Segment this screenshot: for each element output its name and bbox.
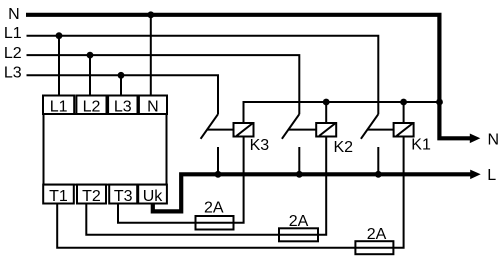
terminal L2 box [76, 96, 106, 115]
svg-text:K2: K2 [334, 139, 354, 156]
fuse 2A for K3 circuit [196, 216, 234, 230]
svg-text:K1: K1 [411, 137, 431, 154]
terminal L1 box [43, 96, 74, 115]
wire L2 drop to device terminal L2 [89, 55, 91, 95]
device body (phase switch) [44, 114, 167, 185]
svg-text:T1: T1 [49, 188, 68, 205]
wire K2 coil top drop [325, 102, 327, 123]
terminal N box [139, 96, 167, 115]
svg-text:L2: L2 [83, 98, 101, 115]
contact K2 blade [282, 114, 299, 139]
junction dot L1 bus / device L1 [56, 32, 63, 39]
wire K1 coil top drop [403, 102, 405, 123]
wire L1 drop to device terminal L1 [58, 36, 60, 96]
junction dot K2 coil / supply bus [323, 99, 330, 106]
wire L2 bus (runs right, drops to K2 contact) [27, 55, 300, 114]
junction dot supply bus / N thick line [436, 99, 443, 106]
fuse 2A for K1 circuit [355, 241, 393, 254]
svg-text:T3: T3 [114, 188, 133, 205]
contact K3 blade [201, 114, 218, 139]
svg-text:N: N [147, 98, 159, 115]
contact K1 lower lead [377, 147, 379, 174]
junction dot K2 contact / L line [296, 171, 303, 178]
junction dot L3 bus / device L3 [118, 72, 125, 79]
terminal Uk box [138, 185, 167, 204]
wire N bus (thick, runs right then down to N output arrow) [26, 15, 470, 139]
wire coil supply bus to N (y=102) [244, 102, 440, 123]
wire T3 to fuse F3 to coil K3 bottom [118, 137, 244, 223]
wire T2 to fuse F2 to coil K2 bottom [86, 137, 326, 235]
svg-text:L: L [487, 167, 496, 184]
svg-text:T2: T2 [82, 188, 101, 205]
contact K2 lower lead [298, 147, 300, 174]
wire Uk to L output (thick hook) [153, 174, 471, 211]
L output arrowhead [470, 170, 481, 180]
svg-text:2A: 2A [367, 226, 387, 243]
svg-text:L3: L3 [4, 65, 22, 82]
terminal T3 box [109, 185, 137, 204]
coil K1 box [394, 123, 414, 137]
wire T1 to fuse F1 to coil K1 bottom [57, 137, 403, 248]
svg-text:2A: 2A [289, 213, 309, 230]
svg-text:N: N [8, 6, 20, 23]
svg-text:N: N [488, 131, 500, 148]
svg-text:L1: L1 [50, 98, 68, 115]
coil K2 box [316, 123, 336, 137]
contact K1 actuator link [368, 129, 394, 131]
junction dot K3 contact / L line [215, 171, 222, 178]
coil K2 slash [319, 124, 335, 136]
coil K3 box [234, 123, 254, 137]
contact K2 actuator link [289, 129, 317, 131]
coil K3 slash [237, 124, 253, 136]
contact K3 lower lead [217, 147, 219, 174]
contact K1 blade [361, 114, 378, 139]
svg-text:Uk: Uk [143, 188, 164, 205]
fuse 2A for K2 circuit [279, 228, 318, 241]
junction dot N bus / device N [147, 11, 154, 18]
terminal T2 box [77, 185, 106, 204]
terminal T1 box [43, 185, 74, 204]
svg-text:L2: L2 [4, 45, 22, 62]
wire L3 drop to device terminal L3 [120, 75, 122, 95]
N output arrowhead [470, 134, 481, 144]
svg-text:L3: L3 [114, 98, 132, 115]
svg-text:K3: K3 [250, 137, 270, 154]
contact K3 actuator link [207, 129, 233, 131]
junction dot K1 coil / supply bus [400, 99, 407, 106]
junction dot K1 contact / L line [375, 171, 382, 178]
coil K1 slash [397, 124, 413, 136]
terminal L3 box [108, 96, 137, 115]
wire L1 bus (runs right, drops to K1 contact) [27, 36, 379, 115]
svg-text:L1: L1 [4, 25, 22, 42]
wire N drop to device terminal N [150, 15, 152, 96]
svg-text:2A: 2A [204, 199, 224, 216]
junction dot L2 bus / device L2 [87, 52, 94, 59]
wire L3 bus (runs right, drops to K3 contact) [27, 75, 219, 114]
